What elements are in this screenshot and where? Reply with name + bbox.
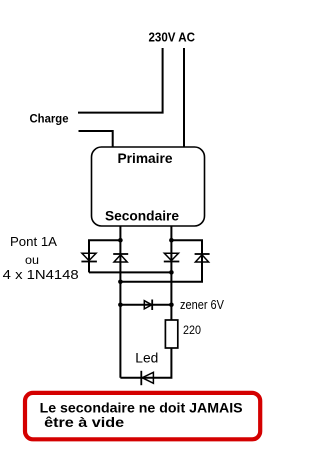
diode D4 — [195, 254, 210, 262]
svg-text:Charge: Charge — [30, 112, 69, 126]
wire D3 vertical through bridge — [170, 240, 172, 305]
svg-text:Pont 1A: Pont 1A — [10, 235, 58, 249]
node junction zener-left — [118, 303, 123, 308]
node junction A-rail — [118, 238, 123, 243]
svg-text:zener 6V: zener 6V — [180, 297, 224, 312]
svg-text:230V AC: 230V AC — [149, 30, 196, 45]
warning box frame — [25, 393, 260, 439]
wire resistor to LED row — [153, 348, 171, 378]
wire D1 cathode down — [88, 253, 90, 272]
transformer T1 body — [92, 147, 205, 226]
svg-text:4 x 1N4148: 4 x 1N4148 — [3, 267, 79, 282]
wire AC right: from 230V AC down to primary pin — [183, 48, 185, 148]
LED D5 — [141, 371, 153, 385]
svg-text:Primaire: Primaire — [118, 150, 173, 166]
wire LED to minus vertical — [120, 377, 153, 379]
node junction zener-right — [169, 303, 174, 308]
resistor R1 body — [165, 320, 177, 348]
node junction L2-left — [118, 280, 123, 285]
wire Charge to primary left pin — [79, 131, 113, 148]
wire AC left: from 230V AC down then left to Charge — [78, 48, 163, 113]
svg-text:220: 220 — [183, 323, 201, 337]
wire top-right bridge rail — [171, 240, 202, 254]
wire minus vertical zener row to LED row — [119, 305, 121, 378]
wire minus drop to zener row — [119, 282, 121, 305]
zener diode DZ 6V — [120, 300, 171, 311]
diode D2 — [113, 254, 128, 262]
node junction L1-right — [169, 270, 174, 275]
svg-text:être à vide: être à vide — [44, 414, 124, 430]
wire zener right down to resistor — [170, 305, 172, 320]
svg-text:ou: ou — [25, 253, 39, 267]
svg-text:Led: Led — [135, 350, 158, 366]
diode D3 — [164, 253, 180, 261]
wire minus rail L2 — [120, 254, 202, 282]
wire top-left bridge rail — [89, 240, 120, 253]
diode D1 — [81, 253, 97, 261]
svg-text:Secondaire: Secondaire — [105, 207, 179, 223]
wire secondary pin A — [119, 226, 121, 240]
node junction B-rail — [169, 238, 174, 243]
wire D2 anode down to minus rail — [119, 240, 121, 282]
wire plus rail L1 — [89, 271, 171, 273]
wire secondary pin B — [170, 226, 172, 240]
